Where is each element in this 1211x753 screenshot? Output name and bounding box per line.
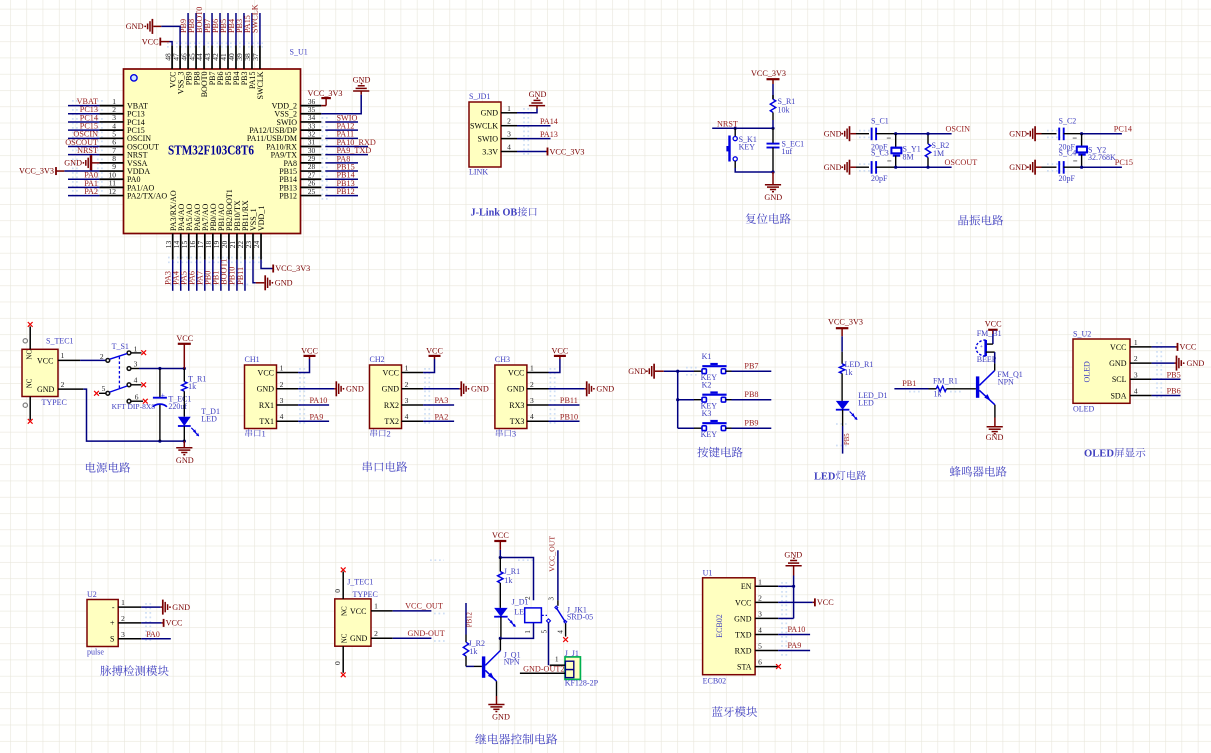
wire net PB5 (MCU pin 41)	[227, 13, 229, 45]
pin 3 PC14 (left)	[99, 121, 123, 123]
svg-text:GND: GND	[764, 193, 782, 202]
wire net PB6	[1152, 395, 1181, 397]
wire net PB15 (MCU pin 28)	[325, 170, 358, 172]
svg-text:GND-OUT: GND-OUT	[408, 629, 445, 638]
resistor T_R1 1k	[183, 369, 185, 382]
pin 12 PA2/TX/AO (left)	[99, 195, 123, 197]
svg-text:PB8: PB8	[744, 390, 758, 399]
svg-text:K1: K1	[702, 352, 712, 361]
svg-text:GND: GND	[1109, 359, 1127, 368]
pin 2 GND (S_U2)	[1130, 362, 1152, 364]
wire net PB10 (MCU pin 21)	[236, 260, 238, 291]
pin 44 BOOT0 (top)	[203, 45, 205, 69]
ground symbol (CH2)	[459, 388, 461, 390]
pin 1 EN (U1)	[755, 585, 778, 587]
svg-text:GND: GND	[481, 109, 499, 118]
pin 1 VCC (CH3)	[527, 372, 549, 374]
wire VCC to J_R1 node	[499, 550, 501, 558]
svg-text:PC14: PC14	[1114, 125, 1132, 134]
pin 33 PA12/USB/DP (right)	[301, 129, 322, 131]
svg-text:S_C4: S_C4	[1059, 149, 1077, 158]
ground symbol (buzzer)	[987, 426, 1003, 428]
pin 3 SCL (S_U2)	[1130, 378, 1152, 380]
junction S_R2 top	[926, 132, 929, 135]
wire net PA14	[517, 125, 551, 127]
svg-text:5: 5	[758, 642, 762, 651]
svg-text:VCC_OUT: VCC_OUT	[548, 536, 557, 572]
pin 47 VSS_3 (top)	[179, 45, 181, 69]
svg-text:RXD: RXD	[735, 646, 752, 655]
power port VCC (pulse)	[162, 622, 164, 624]
power port VCC (top left)	[159, 38, 161, 46]
svg-text:GND: GND	[346, 385, 364, 394]
junction collector node	[499, 637, 502, 640]
pin 24 VDD_1 (bottom)	[260, 234, 262, 260]
svg-text:+: +	[980, 344, 983, 350]
svg-text:S_C1: S_C1	[871, 117, 889, 126]
op-amp U1 body: STM32F103C8T6 S_U1	[124, 69, 301, 234]
svg-text:PB12: PB12	[279, 191, 297, 200]
svg-text:NC: NC	[26, 378, 34, 388]
svg-text:1: 1	[530, 364, 534, 373]
wire net PC14 (MCU pin 3)	[68, 121, 99, 123]
svg-text:RX2: RX2	[384, 401, 399, 410]
svg-text:10k: 10k	[778, 105, 790, 114]
pin 10 PA0 (left)	[99, 178, 123, 180]
svg-text:5: 5	[541, 629, 549, 633]
svg-text:GND: GND	[784, 551, 802, 560]
resistor S_R2 1M	[927, 134, 929, 144]
pin 42 PB6 (top)	[219, 45, 221, 69]
wire buzzer to transistor collector	[986, 351, 995, 353]
pin 39 PB3 (top)	[243, 45, 245, 69]
svg-text:2: 2	[758, 593, 762, 602]
title pulse detection module	[100, 666, 111, 676]
svg-text:LED: LED	[858, 399, 874, 408]
svg-text:S_C3: S_C3	[871, 149, 889, 158]
wire net NRST (MCU pin 7)	[68, 154, 99, 156]
junction key rail K1	[676, 370, 679, 373]
svg-text:12: 12	[109, 187, 117, 196]
svg-text:VCC_3V3: VCC_3V3	[828, 317, 863, 326]
pin 21 PB10/TX (bottom)	[236, 234, 238, 260]
wire emitter to ground	[994, 405, 996, 418]
junction OSCOUT node	[894, 166, 897, 169]
svg-text:1M: 1M	[933, 149, 944, 158]
svg-text:VDD_1: VDD_1	[257, 206, 266, 231]
wire net PA9_TXD (MCU pin 30)	[325, 154, 368, 156]
svg-text:VCC: VCC	[350, 607, 366, 616]
pin 29 PA8 (right)	[301, 162, 322, 164]
pin 17 PA7/AO (bottom)	[204, 234, 206, 260]
wire VCC_3V3 to LED_R1	[841, 336, 843, 352]
wire net PA15 (MCU pin 38)	[251, 13, 253, 45]
pin 4 TX3 (CH3)	[527, 420, 549, 422]
pin 3 SWIO (S_JD1)	[501, 138, 517, 140]
label serial port 3	[496, 429, 503, 437]
wire GND to bottom rail	[83, 389, 184, 441]
pin 19 PB1/AO (bottom)	[220, 234, 222, 260]
junction key rail K2	[676, 398, 679, 401]
pin 38 PA15 (top)	[251, 45, 253, 69]
svg-text:GND: GND	[1009, 163, 1027, 172]
wire rail to K3	[678, 427, 694, 429]
svg-text:4: 4	[134, 376, 138, 385]
svg-text:NC: NC	[341, 606, 349, 616]
svg-text:VCC: VCC	[817, 598, 834, 607]
wire net OSCIN	[896, 133, 952, 135]
svg-text:GND: GND	[353, 75, 371, 84]
svg-text:TX1: TX1	[259, 417, 274, 426]
pin 8 VSSA (left)	[99, 162, 123, 164]
wire net PA10_RXD (MCU pin 31)	[325, 146, 368, 148]
svg-text:3: 3	[405, 396, 409, 405]
svg-text:VCC_3V3: VCC_3V3	[307, 89, 342, 98]
svg-text:1uf: 1uf	[782, 147, 793, 156]
svg-text:PB6: PB6	[1167, 387, 1181, 396]
pin 3 S (U2)	[118, 638, 141, 640]
wire net VCC_OUT (relay pin 3)	[557, 550, 559, 600]
pin 7 NRST (left)	[99, 154, 123, 156]
svg-text:ECB02: ECB02	[703, 677, 727, 686]
svg-text:GND: GND	[734, 614, 752, 623]
wire collector to node	[499, 638, 501, 650]
svg-text:GND: GND	[596, 385, 614, 394]
junction EC1 top	[158, 367, 161, 370]
resistor J_R2 1k	[465, 635, 467, 643]
svg-text:VCC_3V3: VCC_3V3	[751, 69, 786, 78]
wire EN and GND to ground rail	[778, 585, 793, 587]
junction J_R1 top node	[499, 556, 502, 559]
svg-text:VCC: VCC	[985, 320, 1002, 329]
svg-text:4: 4	[405, 412, 409, 421]
svg-text:GND: GND	[172, 603, 190, 612]
pin 2 wire net GND-OUT2	[520, 672, 565, 674]
wire net PB9 (MCU pin 46)	[187, 13, 189, 45]
svg-text:LED: LED	[814, 471, 835, 482]
wire LED to net PB5	[842, 410, 844, 426]
svg-text:GND: GND	[529, 90, 547, 99]
svg-text:PA9: PA9	[788, 641, 802, 650]
svg-text:4: 4	[530, 412, 534, 421]
wire net VBAT (MCU pin 1)	[68, 105, 99, 107]
ground symbol (relay)	[488, 704, 504, 706]
pin 1 VCC (S_U2)	[1130, 346, 1152, 348]
junction NRST-button node	[734, 127, 737, 130]
wire pin2 to ground (CH1)	[298, 388, 334, 390]
svg-text:VCC: VCC	[492, 531, 509, 540]
title power circuit	[86, 462, 96, 472]
svg-text:S_U2: S_U2	[1073, 330, 1091, 339]
title serial circuit	[363, 461, 372, 472]
svg-text:GND: GND	[1009, 130, 1027, 139]
svg-text:J-Link OB: J-Link OB	[471, 208, 518, 219]
wire net PA9 (RXD)	[778, 650, 810, 652]
pin 22 PB11/RX (bottom)	[244, 234, 246, 260]
wire net PB3 (MCU pin 39)	[243, 13, 245, 45]
resistor J_R1 1k	[499, 558, 501, 572]
svg-text:GND: GND	[257, 385, 275, 394]
svg-text:SWCLK: SWCLK	[256, 71, 265, 99]
svg-text:FM_B1: FM_B1	[977, 329, 1002, 338]
svg-text:PB1: PB1	[902, 379, 916, 388]
svg-text:GND: GND	[986, 433, 1004, 442]
ground symbol (OLED)	[1175, 362, 1177, 364]
svg-text:VCC: VCC	[258, 368, 274, 377]
svg-text:3: 3	[548, 597, 556, 601]
wire net OSCIN (MCU pin 5)	[68, 137, 99, 139]
svg-text:1: 1	[134, 344, 138, 353]
button S_K1 KEY	[734, 128, 736, 136]
wire net GND-OUT	[393, 637, 432, 639]
module U1 ECB02 body	[703, 578, 756, 675]
svg-text:GND: GND	[350, 634, 368, 643]
svg-text:GND: GND	[382, 385, 400, 394]
svg-text:VCC: VCC	[142, 37, 159, 46]
wire net PA0	[141, 638, 171, 640]
svg-text:PA2: PA2	[84, 187, 98, 196]
svg-text:1: 1	[507, 104, 511, 113]
wire resistor to node NRST	[772, 120, 774, 128]
capacitor S_C2 20pF	[1042, 133, 1057, 135]
svg-text:4: 4	[758, 625, 762, 634]
resistor LED_R1 1k	[841, 352, 843, 364]
ground symbol (bluetooth)	[793, 566, 795, 576]
pin 6 STA (U1)	[755, 666, 778, 668]
wire node to relay coil bottom	[500, 623, 533, 639]
resistor FM_R1 1k	[929, 388, 937, 390]
pin 2 GND (CH1)	[277, 388, 299, 390]
svg-text:PA2: PA2	[435, 412, 449, 421]
svg-text:1k: 1k	[188, 382, 196, 391]
pin 4 PC15 (left)	[99, 129, 123, 131]
pin 46 PB9 (top)	[187, 45, 189, 69]
pin 31 PA10/RX (right)	[301, 146, 322, 148]
svg-text:3: 3	[280, 396, 284, 405]
pin 43 PB7 (top)	[211, 45, 213, 69]
wire net PA0 (MCU pin 10)	[68, 178, 99, 180]
svg-text:KEY: KEY	[739, 143, 756, 152]
wire VCC to switch	[80, 359, 106, 361]
wire pin1 to VCC (CH3)	[549, 359, 560, 373]
svg-text:2: 2	[405, 380, 409, 389]
pin shield bottom (S_TEC1)	[29, 397, 31, 420]
wire J_R2 to base	[466, 665, 474, 667]
pin 3 RX1 (CH1)	[277, 404, 299, 406]
LED J_D1	[494, 608, 508, 617]
svg-text:1k: 1k	[469, 647, 477, 656]
svg-text:1: 1	[121, 598, 125, 607]
switch pin1 stub with no-ERC cross	[131, 352, 141, 354]
wire net OSCOUT (MCU pin 6)	[68, 146, 99, 148]
svg-text:SWCLK: SWCLK	[251, 4, 260, 33]
svg-text:GND: GND	[176, 456, 194, 465]
wire VCC_3V3 to resistor S_R1	[772, 84, 774, 99]
pin 2 PC13 (left)	[99, 113, 123, 115]
svg-text:EN: EN	[741, 582, 752, 591]
pin 34 SWIO (right)	[301, 121, 322, 123]
wire net PB9	[726, 427, 732, 429]
svg-text:SCL: SCL	[1112, 375, 1127, 384]
svg-text:VCC_3V3: VCC_3V3	[275, 264, 310, 273]
pin 11 PA1/AO (left)	[99, 186, 123, 188]
svg-text:24: 24	[252, 241, 261, 249]
svg-text:1: 1	[61, 351, 65, 360]
ground symbol (pulse)	[161, 606, 163, 608]
wire net OSCOUT	[896, 166, 952, 168]
wire net PC13 (MCU pin 2)	[68, 113, 99, 115]
wire ground to key rail	[664, 370, 694, 372]
pin 16 PA6/AO (bottom)	[196, 234, 198, 260]
svg-text:CH3: CH3	[495, 355, 510, 364]
svg-text:1: 1	[1134, 338, 1138, 347]
svg-text:LINK: LINK	[469, 168, 488, 177]
svg-text:SWCLK: SWCLK	[470, 122, 498, 131]
wire net PA3 (MCU pin 13)	[172, 260, 174, 291]
svg-text:PB12: PB12	[337, 187, 355, 196]
wire net SWIO (MCU pin 34)	[325, 121, 358, 123]
wire net PA2 (CH2 TX)	[423, 420, 454, 422]
pin 4 TX1 (CH1)	[277, 420, 299, 422]
svg-text:1: 1	[524, 630, 532, 634]
svg-text:U2: U2	[87, 590, 97, 599]
pin 41 PB5 (top)	[227, 45, 229, 69]
svg-text:PB10: PB10	[560, 412, 578, 421]
wire net PB8 (MCU pin 45)	[195, 13, 197, 45]
wire VSS_2 pin 35 to ground	[321, 95, 361, 114]
wire net PB8	[726, 399, 732, 401]
svg-text:CH2: CH2	[370, 355, 385, 364]
svg-text:T_S1: T_S1	[112, 342, 129, 351]
button K3 KEY	[694, 427, 702, 429]
resistor S_R1 10k	[772, 95, 774, 99]
svg-text:RX1: RX1	[259, 401, 274, 410]
svg-text:3: 3	[758, 609, 762, 618]
wire net PA13	[517, 138, 551, 140]
pin 32 PA11/USB/DM (right)	[301, 137, 322, 139]
capacitor S_C4 20pF	[1042, 166, 1057, 168]
wire net PB11 (CH3 RX)	[549, 404, 580, 406]
svg-text:VCC: VCC	[508, 368, 524, 377]
wire pin2 to ground	[1152, 362, 1175, 364]
svg-text:S_U1: S_U1	[290, 48, 308, 57]
wire net PB1 (MCU pin 19)	[220, 260, 222, 291]
wire net BOOT1 (MCU pin 20)	[228, 260, 230, 291]
power port VCC_3V3 (below MCU)	[272, 265, 274, 273]
pin 2 VCC (U1)	[755, 601, 778, 603]
pin 4 SDA (S_U2)	[1130, 395, 1152, 397]
junction EC1 bottom	[158, 440, 161, 443]
connector J_TEC1 TYPEC body	[335, 599, 371, 646]
title bluetooth module	[712, 706, 723, 716]
svg-text:1: 1	[280, 364, 284, 373]
wire pin4 to VCC_3V3	[517, 151, 546, 153]
svg-text:3.3V: 3.3V	[482, 147, 498, 156]
svg-text:8M: 8M	[903, 152, 914, 161]
wire rail to K2	[678, 399, 694, 401]
svg-text:PA14: PA14	[540, 117, 558, 126]
svg-text:PB12: PB12	[466, 611, 473, 627]
svg-text:32.768K: 32.768K	[1088, 153, 1116, 162]
svg-text:GND: GND	[628, 367, 646, 376]
svg-text:GND: GND	[1187, 359, 1205, 368]
pin 25 PB12 (right)	[301, 195, 322, 197]
svg-text:1: 1	[374, 602, 378, 611]
pin 1 VBAT (left)	[99, 105, 123, 107]
capacitor S_EC1 1uf	[772, 128, 774, 143]
pin 20 PB2/BOOT1 (bottom)	[228, 234, 230, 260]
wire net PC15	[1082, 166, 1122, 168]
pin 26 PB13 (right)	[301, 186, 322, 188]
svg-text:OLED: OLED	[1082, 361, 1091, 383]
wire net PB6 (MCU pin 42)	[219, 13, 221, 45]
pin 35 VSS_2 (right)	[301, 113, 322, 115]
svg-text:VCC_OUT: VCC_OUT	[405, 602, 443, 611]
wire button to bottom node	[734, 161, 736, 168]
pin 37 SWCLK (top)	[259, 45, 261, 69]
svg-text:2: 2	[100, 352, 104, 361]
svg-text:2: 2	[61, 380, 65, 389]
svg-text:1: 1	[262, 428, 266, 438]
switch pin4 stub with no-ERC cross	[131, 384, 141, 386]
pin 40 PB4 (top)	[235, 45, 237, 69]
module U2 pulse body	[87, 600, 118, 647]
wire pin2 to ground (CH2)	[423, 388, 459, 390]
svg-text:25: 25	[308, 187, 316, 196]
svg-text:GND: GND	[275, 278, 293, 287]
svg-text:3: 3	[512, 428, 516, 438]
wire net PA12 (MCU pin 33)	[325, 129, 358, 131]
crystal S_Y2 32.768K	[1081, 134, 1083, 147]
svg-text:SRD-05: SRD-05	[567, 613, 593, 622]
wire net PB12 (MCU pin 25)	[325, 195, 358, 197]
svg-text:3: 3	[530, 396, 534, 405]
pin 4 3.3V (S_JD1)	[501, 151, 517, 153]
pin 3 RX3 (CH3)	[527, 404, 549, 406]
pin 4 TX2 (CH2)	[402, 420, 424, 422]
pin 4 TXD (U1)	[755, 633, 778, 635]
ground symbol (reset)	[772, 172, 774, 185]
svg-text:2: 2	[1134, 354, 1138, 363]
pin 13 PA3/RX/AO (bottom)	[172, 234, 174, 260]
svg-text:TXD: TXD	[735, 630, 752, 639]
svg-text:GND: GND	[824, 163, 842, 172]
svg-text:0: 0	[333, 589, 342, 593]
svg-text:6: 6	[758, 658, 762, 667]
svg-text:2: 2	[121, 614, 125, 623]
wire pin1 to VCC (CH2)	[423, 359, 434, 373]
pin 9 VDDA (left)	[99, 170, 123, 172]
pin 3 RX2 (CH2)	[402, 404, 424, 406]
svg-text:SDA: SDA	[1110, 391, 1126, 400]
svg-text:2: 2	[524, 596, 532, 600]
pin 1 GND (S_JD1)	[501, 112, 517, 114]
wire net PC15 (MCU pin 4)	[68, 129, 99, 131]
svg-text:BEEP: BEEP	[977, 355, 997, 364]
junction EN node	[792, 585, 795, 588]
capacitor T_EC1 220uf	[159, 369, 161, 398]
wire VSS_3 pin 47 to ground	[161, 26, 180, 45]
wire NRST horizontal	[712, 127, 773, 129]
wire net BOOT0 (MCU pin 44)	[203, 13, 205, 45]
pin 5 OSCIN (left)	[99, 137, 123, 139]
relay contact lever	[541, 614, 547, 616]
svg-text:TX3: TX3	[510, 417, 525, 426]
power port VCC_3V3 (J-Link)	[546, 151, 548, 153]
svg-text:20pF: 20pF	[1059, 174, 1076, 183]
wire pin1 to ground	[141, 606, 161, 608]
LED LED_D1	[836, 401, 850, 410]
